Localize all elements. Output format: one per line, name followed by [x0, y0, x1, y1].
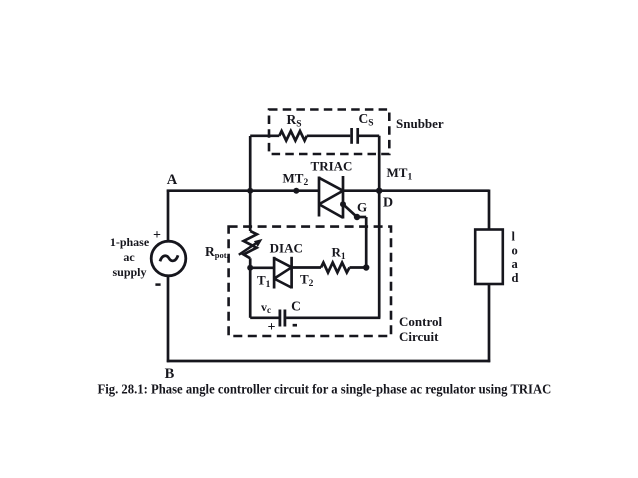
resistor R1 zigzag: [321, 263, 350, 273]
svg-text:CS: CS: [359, 111, 374, 129]
node R1 gate junction: [363, 264, 369, 270]
svg-text:l: l: [512, 230, 516, 244]
wire Cs to snubber right corner: [359, 134, 379, 137]
diac D1 shared middle edge: [274, 267, 292, 278]
svg-text:supply: supply: [112, 265, 146, 279]
svg-text:R1: R1: [332, 245, 346, 263]
svg-text:RS: RS: [287, 112, 302, 130]
wire to diac T1: [250, 266, 274, 269]
wire top-left A to TRIAC MT2: [167, 189, 319, 192]
potentiometer Rpot zigzag: [244, 231, 257, 258]
capacitor C right plate: [283, 310, 286, 327]
wire gate diagonal: [343, 204, 357, 217]
wire R1 to gate node: [350, 266, 367, 269]
label minus capacitor: [293, 324, 297, 327]
potentiometer Rpot arrow: [239, 241, 260, 255]
svg-text:d: d: [512, 271, 519, 285]
svg-text:+: +: [153, 228, 161, 243]
control circuit dashed box: [229, 227, 391, 336]
svg-text:Rpot.: Rpot.: [205, 244, 229, 260]
triac U1 right bar MT1: [342, 176, 345, 219]
wire right rail lower: [488, 284, 491, 363]
node pot bottom junction: [247, 265, 253, 271]
svg-text:MT1: MT1: [387, 165, 413, 183]
ac source sine symbol: [160, 255, 178, 261]
load box: [475, 230, 503, 285]
wire Rs to Cs: [307, 134, 351, 137]
svg-text:D: D: [383, 196, 393, 211]
node MT2 terminal dot: [293, 188, 299, 194]
svg-text:DIAC: DIAC: [270, 241, 303, 256]
diac D1 upper triangle edge: [274, 258, 292, 267]
triac U1 left bar MT2: [318, 177, 321, 217]
wire snubber right vertical down to control circuit: [378, 136, 381, 318]
svg-text:MT2: MT2: [283, 171, 309, 189]
svg-text:TRIAC: TRIAC: [311, 159, 353, 174]
svg-text:T1: T1: [257, 273, 271, 291]
triac U1 upper triangle edge: [319, 178, 343, 191]
svg-text:Circuit: Circuit: [399, 329, 439, 344]
diac D1 right bar: [290, 257, 293, 289]
capacitor Cs right plate: [356, 128, 359, 144]
svg-text:T2: T2: [300, 272, 314, 290]
svg-text:Control: Control: [399, 314, 442, 329]
wire pot junction down to capacitor: [249, 268, 252, 318]
wire pot top: [249, 191, 252, 231]
svg-text:ac: ac: [123, 250, 135, 264]
svg-text:1-phase: 1-phase: [110, 235, 150, 249]
label minus source: [155, 283, 160, 286]
node junction MT1/D: [376, 188, 382, 194]
node G terminal dot: [354, 214, 360, 220]
svg-text:G: G: [357, 200, 367, 215]
resistor Rs zigzag: [279, 131, 307, 141]
wire TRIAC MT1 to right corner: [343, 189, 489, 192]
wire bottom rail B: [167, 360, 490, 363]
wire gate horizontal: [357, 216, 366, 219]
wire snubber left vertical: [249, 136, 252, 192]
triac U1 shared middle edge: [319, 191, 343, 205]
wire diac T2 to R1: [292, 266, 321, 269]
wire capacitor C right to rail: [286, 316, 380, 319]
svg-text:vc: vc: [261, 300, 271, 315]
wire snubber to resistor Rs: [250, 134, 279, 137]
wire gate vertical down to R1: [365, 217, 368, 268]
snubber dashed box: [269, 110, 389, 155]
capacitor Cs left plate: [350, 128, 353, 144]
ac source V1 circle: [151, 241, 186, 276]
svg-text:B: B: [165, 366, 175, 382]
svg-text:C: C: [291, 299, 301, 314]
node junction at snubber left: [247, 188, 253, 194]
svg-text:Snubber: Snubber: [396, 116, 444, 131]
wire left rail lower: [167, 276, 170, 362]
wire right rail upper: [488, 190, 491, 231]
node gate attach dot: [340, 201, 346, 207]
svg-text:A: A: [167, 172, 178, 188]
diac D1 lower triangle edge: [274, 279, 292, 288]
wire left rail upper: [167, 190, 170, 242]
diac D1 left bar: [273, 257, 276, 289]
wire to capacitor C left: [250, 316, 279, 319]
capacitor C left plate: [278, 310, 281, 327]
svg-text:+: +: [268, 320, 276, 335]
svg-text:a: a: [512, 257, 519, 271]
triac U1 lower triangle edge: [319, 204, 343, 218]
wire pot bottom: [249, 258, 252, 268]
svg-text:o: o: [512, 243, 518, 257]
svg-text:Fig. 28.1: Phase angle control: Fig. 28.1: Phase angle controller circui…: [98, 381, 552, 397]
